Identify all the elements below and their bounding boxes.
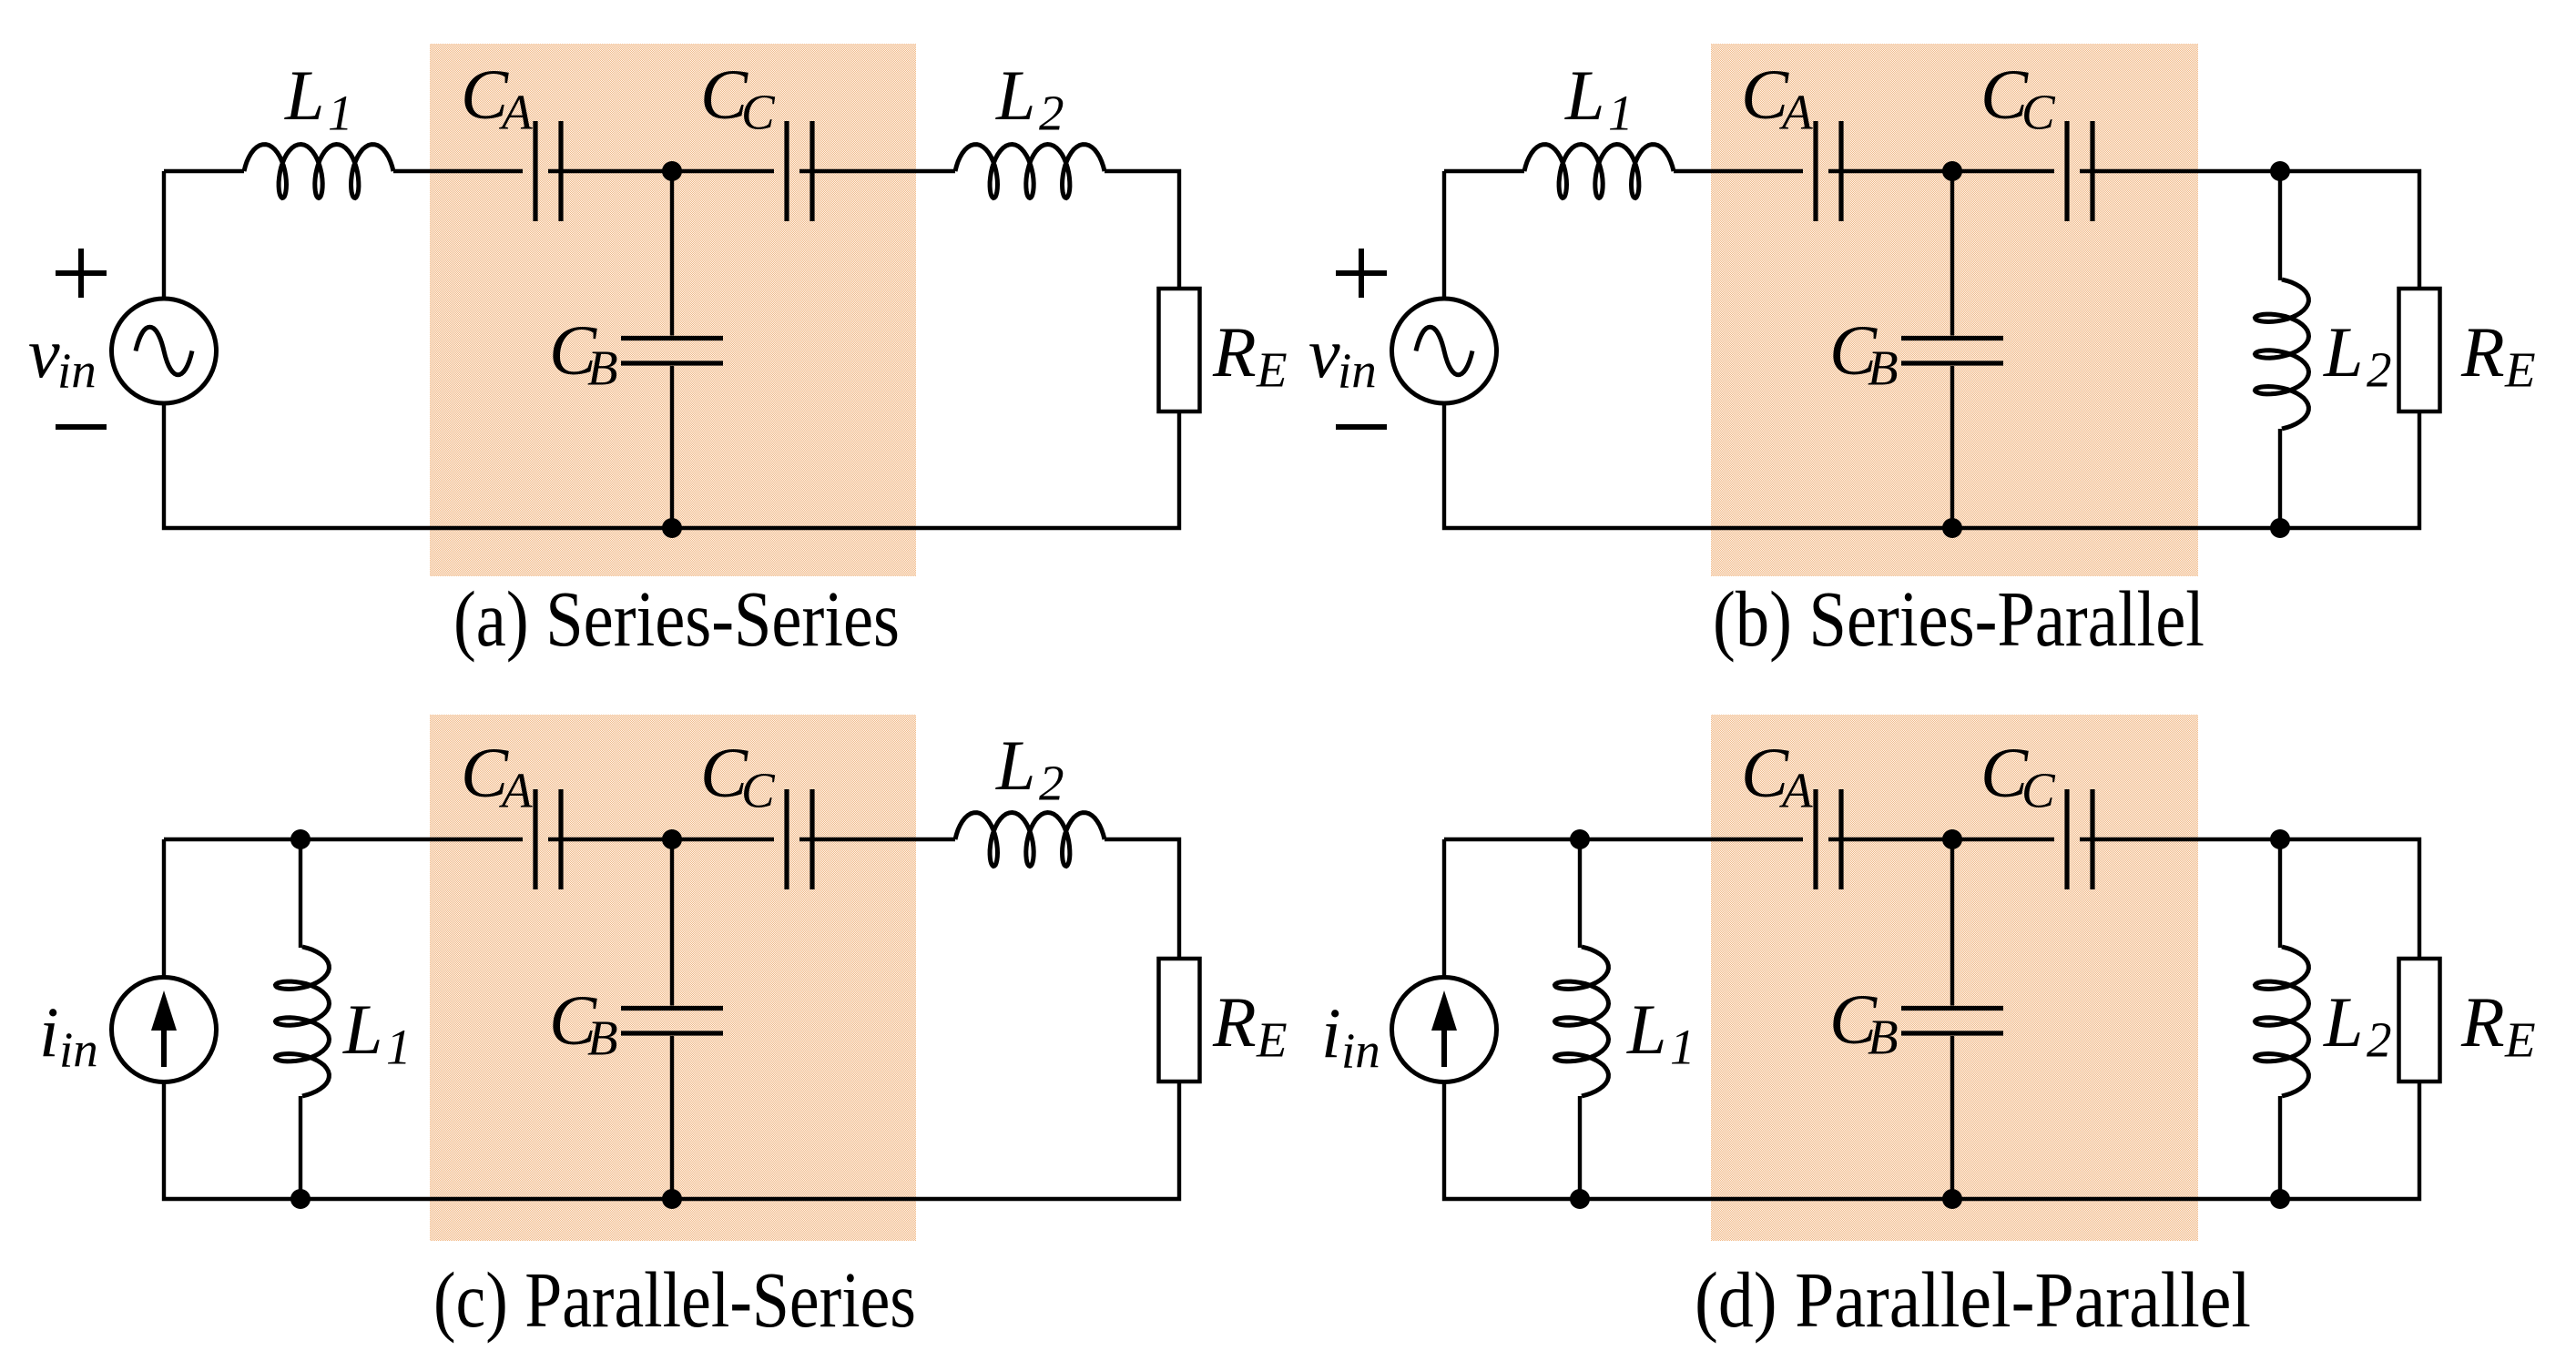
svg-text:A: A [498, 763, 533, 818]
svg-text:i: i [1321, 993, 1341, 1072]
svg-text:2: 2 [2367, 342, 2392, 398]
svg-text:C: C [2021, 85, 2056, 140]
svg-text:i: i [39, 992, 59, 1071]
svg-text:E: E [1256, 342, 1288, 398]
svg-text:L: L [284, 56, 324, 135]
svg-text:L: L [2323, 982, 2363, 1061]
svg-text:2: 2 [1039, 86, 1064, 141]
svg-text:(c) Parallel-Series: (c) Parallel-Series [433, 1255, 916, 1344]
svg-text:L: L [2323, 312, 2363, 391]
svg-text:E: E [1256, 1012, 1288, 1068]
svg-text:1: 1 [386, 1020, 412, 1075]
svg-text:A: A [1778, 763, 1813, 818]
svg-text:L: L [995, 56, 1035, 135]
svg-text:R: R [2460, 312, 2505, 391]
svg-text:1: 1 [1608, 86, 1634, 141]
svg-text:B: B [587, 340, 618, 396]
svg-text:v: v [1308, 313, 1340, 392]
svg-text:R: R [2460, 982, 2505, 1061]
svg-text:L: L [1564, 56, 1604, 135]
svg-text:in: in [1338, 343, 1377, 399]
svg-text:in: in [1341, 1023, 1380, 1079]
svg-text:A: A [1778, 85, 1813, 140]
svg-text:in: in [59, 1022, 98, 1078]
svg-text:L: L [995, 726, 1035, 805]
svg-text:(a) Series-Series: (a) Series-Series [453, 574, 900, 663]
svg-text:A: A [498, 85, 533, 140]
svg-text:2: 2 [1039, 756, 1064, 811]
svg-text:E: E [2504, 342, 2536, 398]
svg-text:R: R [1212, 312, 1257, 391]
svg-text:(d) Parallel-Parallel: (d) Parallel-Parallel [1695, 1255, 2251, 1344]
svg-text:B: B [587, 1010, 618, 1066]
svg-text:v: v [28, 313, 60, 392]
svg-text:(b) Series-Parallel: (b) Series-Parallel [1713, 574, 2204, 663]
svg-text:1: 1 [328, 86, 353, 141]
svg-text:L: L [1626, 990, 1666, 1069]
svg-text:R: R [1212, 982, 1257, 1061]
svg-text:E: E [2504, 1012, 2536, 1068]
svg-text:C: C [741, 85, 776, 140]
svg-text:L: L [342, 990, 382, 1069]
svg-text:in: in [57, 343, 97, 399]
svg-text:1: 1 [1670, 1020, 1695, 1075]
svg-text:B: B [1868, 1010, 1899, 1065]
svg-text:2: 2 [2367, 1012, 2392, 1068]
svg-text:B: B [1868, 340, 1899, 396]
svg-text:C: C [741, 763, 776, 818]
svg-text:C: C [2021, 763, 2056, 818]
